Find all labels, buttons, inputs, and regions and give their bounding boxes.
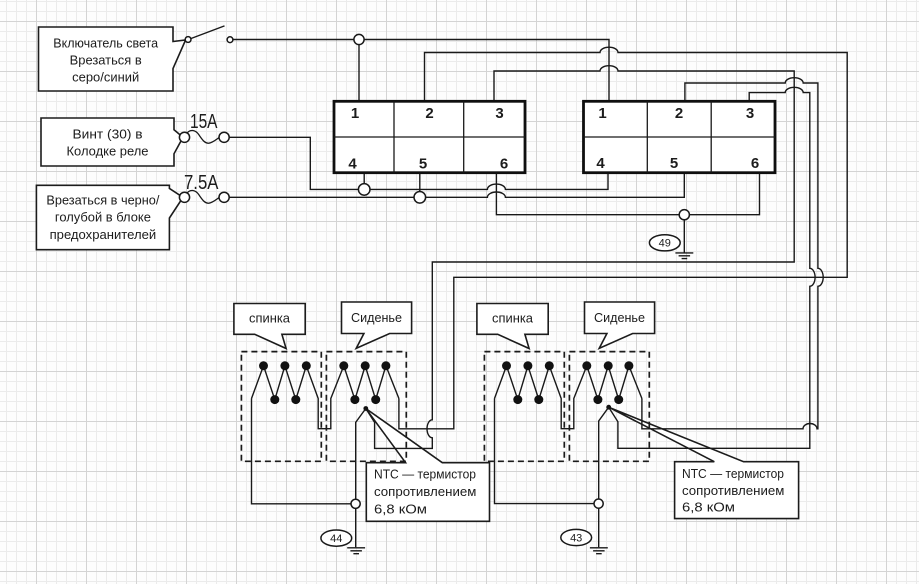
svg-text:Винт (30) в: Винт (30) в bbox=[73, 128, 143, 142]
node: junction ground 43 bbox=[594, 499, 603, 508]
svg-text:Сиденье: Сиденье bbox=[594, 310, 645, 325]
svg-text:сопротивлением: сопротивлением bbox=[374, 484, 476, 499]
svg-text:2: 2 bbox=[675, 105, 683, 122]
dashed pad box seat right bbox=[569, 352, 649, 462]
svg-text:спинка: спинка bbox=[492, 311, 534, 326]
wire: drop to left block pin 1 bbox=[358, 40, 360, 102]
svg-text:7.5А: 7.5А bbox=[184, 171, 219, 194]
callout: NTC note right (box + pointer, under wires) bbox=[609, 407, 799, 518]
label oval 43 bbox=[561, 529, 592, 545]
svg-text:Сиденье: Сиденье bbox=[351, 310, 402, 325]
dashed pad box seat left bbox=[326, 352, 406, 462]
svg-text:голубой в блоке: голубой в блоке bbox=[55, 211, 151, 225]
node: junction on switch wire bbox=[354, 34, 364, 44]
node: junction ground bus bbox=[679, 210, 689, 220]
dashed pad box backrest left bbox=[241, 352, 321, 462]
svg-text:NTC — термистор: NTC — термистор bbox=[374, 467, 476, 482]
svg-text:5: 5 bbox=[670, 155, 678, 172]
heater dots backrest left bbox=[259, 361, 311, 404]
wire: right pin2 loop to right seat heater bbox=[642, 78, 823, 429]
wire: right pin3 loop to right NTC bbox=[609, 87, 815, 448]
svg-text:4: 4 bbox=[348, 156, 357, 173]
node: junction 7.5A / left pin5 bbox=[414, 192, 426, 204]
heater dots backrest right bbox=[502, 361, 554, 404]
svg-text:Включатель света: Включатель света bbox=[53, 36, 158, 50]
svg-text:6: 6 bbox=[751, 155, 759, 172]
svg-text:5: 5 bbox=[419, 156, 427, 173]
fuse F1 15A bbox=[179, 130, 229, 143]
wire: drop to ground 49 bbox=[683, 220, 685, 253]
svg-text:сопротивлением: сопротивлением bbox=[682, 483, 784, 498]
heater dots seat left bbox=[339, 361, 390, 404]
ground 43 symbol bbox=[590, 548, 608, 554]
connector block left bbox=[334, 101, 525, 172]
wire: left pin5 drop bbox=[419, 173, 421, 198]
svg-text:3: 3 bbox=[746, 105, 754, 122]
svg-text:4: 4 bbox=[596, 155, 605, 172]
ground 49 symbol bbox=[675, 253, 693, 259]
svg-text:1: 1 bbox=[598, 105, 606, 122]
svg-text:6: 6 bbox=[500, 156, 508, 173]
callout: screw 30 relay block note bbox=[41, 118, 183, 166]
callout: spinka right bbox=[477, 304, 548, 349]
callout: fuse box note bbox=[36, 185, 183, 249]
wire: left pin4 drop bbox=[363, 173, 365, 190]
wire: left backrest to ground 44 bbox=[252, 399, 356, 504]
callout: spinka left bbox=[234, 304, 305, 349]
label oval 49 bbox=[649, 235, 680, 251]
callout: light switch note bbox=[39, 27, 186, 91]
svg-text:44: 44 bbox=[330, 533, 342, 545]
svg-text:6,8 кОм: 6,8 кОм bbox=[682, 499, 735, 514]
connector block right bbox=[584, 101, 776, 172]
svg-text:предохранителей: предохранителей bbox=[50, 228, 157, 242]
svg-text:NTC — термистор: NTC — термистор bbox=[682, 466, 784, 481]
dashed pad box backrest right bbox=[484, 352, 564, 462]
ground 44 symbol bbox=[347, 548, 365, 554]
svg-text:49: 49 bbox=[659, 238, 671, 250]
callout: sidenie left bbox=[342, 302, 412, 348]
fuse F2 7.5A bbox=[179, 190, 229, 203]
wire: 7.5A feed to pin5 both blocks bbox=[229, 173, 684, 198]
wire: right backrest to ground 43 bbox=[495, 399, 599, 504]
wire: switch feed to pin1 both blocks bbox=[233, 40, 609, 102]
switch SW1 (light switch) bbox=[185, 26, 233, 43]
svg-text:43: 43 bbox=[570, 532, 582, 544]
svg-text:2: 2 bbox=[425, 105, 433, 122]
svg-text:1: 1 bbox=[351, 105, 359, 122]
label oval 44 bbox=[321, 530, 352, 546]
heating element backrest left (spinka) bbox=[252, 366, 399, 429]
heating element backrest right (spinka) bbox=[495, 366, 642, 429]
wire: pin6 ground bus both blocks bbox=[496, 173, 759, 215]
svg-text:серо/синий: серо/синий bbox=[72, 70, 139, 84]
NTC thermistor dot left bbox=[363, 406, 368, 411]
wire: left NTC to ground 44 bbox=[356, 409, 366, 548]
wire: left pin3 loop to left NTC bbox=[366, 66, 794, 449]
svg-text:спинка: спинка bbox=[249, 311, 291, 326]
NTC thermistor dot right bbox=[606, 405, 611, 410]
svg-text:Колодке реле: Колодке реле bbox=[67, 145, 149, 159]
svg-text:3: 3 bbox=[495, 105, 503, 122]
svg-text:15А: 15А bbox=[190, 110, 218, 133]
wire: right NTC to ground 43 bbox=[599, 407, 609, 547]
wire: left pin2 loop to left seat heater bbox=[399, 47, 847, 429]
svg-text:Врезаться в черно/: Врезаться в черно/ bbox=[46, 194, 160, 208]
wire: 15A feed to pin4 both blocks bbox=[229, 137, 608, 189]
heater dots seat right bbox=[582, 361, 633, 404]
node: junction ground 44 bbox=[351, 499, 360, 508]
svg-text:6,8 кОм: 6,8 кОм bbox=[374, 502, 427, 517]
node: junction 15A / left pin4 bbox=[358, 184, 370, 196]
callout: NTC note left (box + pointer, under wires) bbox=[366, 409, 490, 522]
callout: sidenie right bbox=[585, 302, 655, 348]
svg-text:Врезаться в: Врезаться в bbox=[70, 53, 142, 67]
